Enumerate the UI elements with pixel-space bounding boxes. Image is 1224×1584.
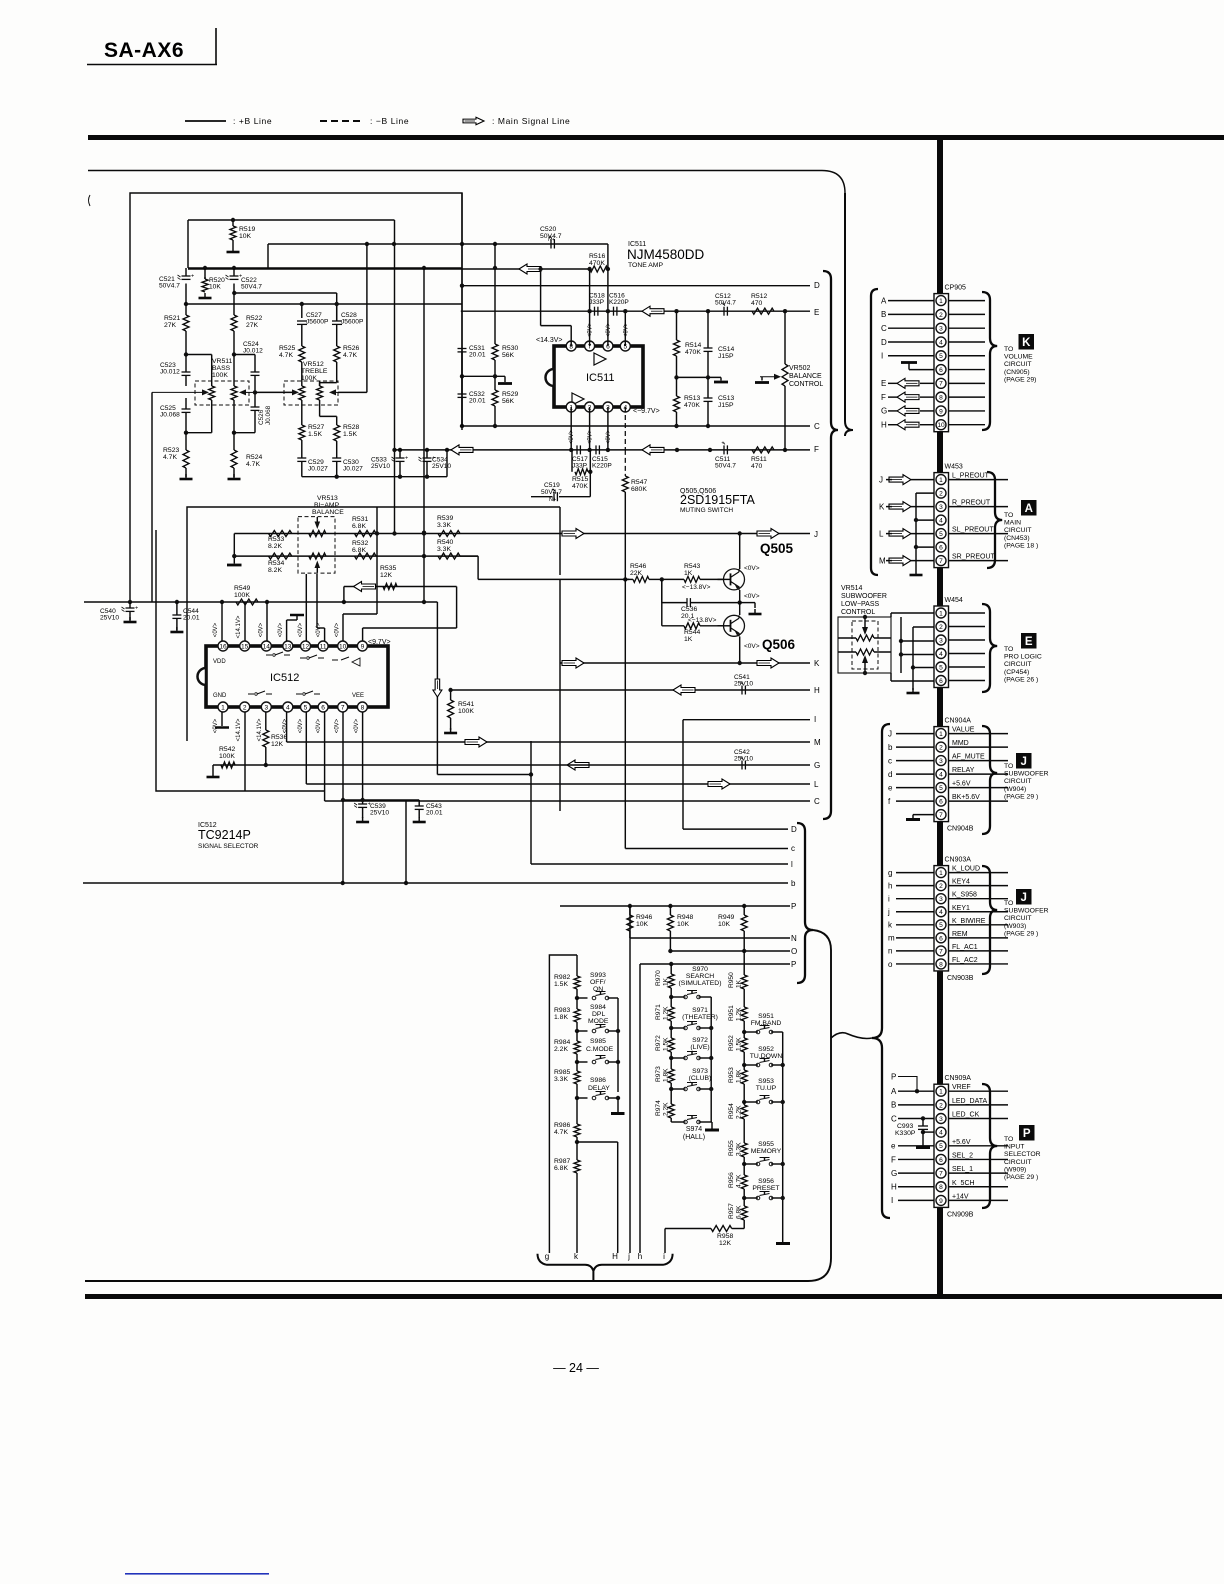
resistor R951 (741, 1007, 747, 1021)
svg-text:VOLUME: VOLUME (1004, 354, 1033, 361)
svg-text:(SIMULATED): (SIMULATED) (679, 980, 722, 987)
wire rail y268 (188, 268, 590, 270)
wire IC512 bottom pins (221, 712, 223, 726)
svg-text:PRESET: PRESET (752, 1185, 779, 1192)
svg-text:4.7K: 4.7K (343, 352, 357, 359)
resistor R974 (670, 1089, 672, 1104)
resistor R952 (743, 1032, 745, 1038)
signal arrow L (708, 779, 730, 789)
svg-text:W453: W453 (945, 464, 963, 471)
resistor R522 (233, 293, 235, 315)
switch S952 (744, 1064, 758, 1066)
frame thick bottom line (85, 1294, 1222, 1299)
svg-text:O: O (791, 947, 797, 956)
ground W453 (915, 570, 917, 575)
svg-text:<0V>: <0V> (623, 322, 629, 337)
wire to pin (898, 1158, 934, 1160)
svg-text:100K: 100K (234, 592, 250, 599)
resistor R533 (269, 531, 292, 537)
svg-text:12: 12 (302, 643, 310, 650)
resistor R524 (233, 433, 235, 450)
svg-text:LED_CK: LED_CK (952, 1112, 980, 1119)
VR514 arrow up (862, 655, 868, 663)
svg-text:b: b (888, 743, 893, 752)
wire pin stubs W454 (949, 612, 986, 614)
svg-text:(THEATER): (THEATER) (682, 1014, 718, 1021)
wire C519 row (531, 496, 553, 498)
svg-text:<0V>: <0V> (744, 643, 760, 650)
svg-text:TO: TO (1004, 346, 1013, 353)
ground C544 (176, 627, 178, 632)
wire to pin (896, 760, 934, 762)
svg-text:5: 5 (939, 785, 943, 792)
pin 12 (301, 641, 311, 651)
capacitor C527 body (297, 320, 307, 322)
pin 5 (620, 341, 630, 351)
svg-text:(W909): (W909) (1004, 1166, 1026, 1173)
wire pin11 feed (324, 628, 326, 641)
capacitor C543 (418, 800, 420, 806)
svg-text:1.8K: 1.8K (736, 1069, 743, 1083)
svg-text:D: D (791, 825, 797, 834)
wire F line (395, 449, 811, 451)
svg-text:R974: R974 (655, 1100, 662, 1116)
VR513 wiper down arrow (315, 522, 321, 530)
resistor R523 (185, 433, 187, 450)
wire P hop (898, 1077, 917, 1092)
svg-text:OFF/: OFF/ (590, 979, 606, 986)
resistor R530 (494, 244, 496, 268)
pin 5 (301, 702, 311, 712)
svg-text:<0V>: <0V> (606, 429, 612, 444)
svg-text:IC511: IC511 (586, 372, 615, 384)
svg-text:BALANCE: BALANCE (312, 509, 344, 516)
svg-text:<0V>: <0V> (569, 429, 575, 444)
VR514 wires (838, 637, 856, 639)
wire net label underline (949, 1090, 1009, 1092)
VR512 wiper right arrow (333, 391, 338, 393)
switch S953 (744, 1101, 758, 1103)
svg-text:4: 4 (939, 518, 943, 525)
resistor R543 (684, 576, 700, 582)
wire to pin (920, 410, 934, 412)
pin 2 (936, 1100, 946, 1110)
svg-text:R957: R957 (728, 1203, 735, 1219)
svg-text:50V4.7: 50V4.7 (541, 489, 562, 496)
wire pin8 supply (570, 326, 572, 346)
VR511 dashed box (195, 381, 249, 405)
svg-text:2: 2 (939, 745, 943, 752)
svg-text:CIRCUIT: CIRCUIT (1004, 915, 1032, 922)
ground VR502 mid (720, 377, 722, 380)
svg-text:e: e (888, 783, 893, 792)
wire net label underline (949, 800, 1009, 802)
svg-text:N+: N+ (548, 237, 555, 243)
svg-text:470K: 470K (684, 402, 700, 409)
wire C519 to R515 (559, 496, 590, 498)
svg-text:P: P (891, 1072, 896, 1081)
svg-text:<0V>: <0V> (298, 622, 304, 637)
wire net label underline (949, 773, 1009, 775)
svg-text:<14.1V>: <14.1V> (236, 718, 242, 741)
node junction (660, 577, 664, 581)
VR512 pot right (319, 383, 321, 386)
ground Q505 emitter (740, 602, 755, 604)
signal arrow E line (642, 306, 664, 316)
svg-text:100K: 100K (219, 753, 235, 760)
node junction (674, 424, 678, 428)
svg-text:2: 2 (939, 624, 943, 631)
ground pin13 (290, 614, 304, 617)
capacitor C519 (553, 492, 555, 501)
svg-text:(CN905): (CN905) (1004, 369, 1030, 376)
resistor R946 (629, 906, 631, 915)
pin 8 (936, 959, 946, 969)
svg-text:6: 6 (939, 935, 943, 942)
wire S985 right (608, 1061, 619, 1063)
wire P key rail (560, 905, 790, 907)
resistor R954 (743, 1102, 745, 1105)
svg-text:m: m (888, 934, 895, 943)
ground VR502 wiper (755, 381, 769, 384)
resistor R955 (741, 1143, 747, 1157)
svg-text:1.5K: 1.5K (308, 431, 322, 438)
node junction (184, 431, 188, 435)
svg-text:K_BIWIRE: K_BIWIRE (952, 918, 986, 925)
resistor R525 (301, 324, 303, 346)
svg-text:1.5K: 1.5K (736, 1037, 743, 1051)
svg-text:9: 9 (939, 1198, 943, 1205)
wire C rail (460, 425, 810, 427)
svg-text:CN904B: CN904B (947, 826, 974, 833)
IC512 area box (187, 507, 560, 741)
signal arrow to IC511 (519, 264, 541, 274)
wire to pin (896, 733, 934, 735)
svg-text:(HALL): (HALL) (683, 1134, 705, 1141)
svg-text:I: I (881, 352, 883, 361)
svg-text:CN903B: CN903B (947, 975, 974, 982)
svg-text:20.01: 20.01 (469, 352, 486, 359)
wire R519 rail (188, 219, 395, 221)
pin 6 (936, 365, 946, 375)
svg-text:1.5K: 1.5K (554, 981, 568, 988)
svg-text:3.3K: 3.3K (554, 1076, 568, 1083)
VR511 wiper right arrow (243, 391, 255, 393)
wire S971 right (699, 1027, 712, 1029)
pin 1 (218, 702, 228, 712)
svg-text:KEY1: KEY1 (952, 905, 970, 912)
svg-text:J: J (814, 530, 818, 539)
svg-text:2SD1915FTA: 2SD1915FTA (680, 493, 755, 507)
switch S955 (744, 1163, 758, 1165)
svg-text:C993: C993 (897, 1123, 913, 1130)
brace bundle D-P lower (797, 823, 813, 983)
capacitor C530 (332, 457, 341, 459)
wire S955 right (771, 1163, 783, 1165)
wire pin7 down to b rail (342, 712, 344, 883)
svg-text:5: 5 (939, 922, 943, 929)
svg-text:RELAY: RELAY (952, 767, 975, 774)
wire rail to Q505 base (478, 578, 629, 580)
wire rail y774 (437, 774, 531, 776)
svg-text:CONTROL: CONTROL (841, 609, 875, 616)
pin 9 (936, 1195, 946, 1205)
resistor R511 (752, 447, 774, 453)
capacitor C532 (461, 352, 463, 394)
svg-text:FL_AC1: FL_AC1 (952, 944, 978, 951)
svg-text:H: H (881, 421, 887, 430)
wire L line from pin5 (305, 712, 307, 784)
svg-text:R972: R972 (655, 1035, 662, 1051)
svg-text:5: 5 (939, 531, 943, 538)
wire pin stubs top (589, 311, 591, 346)
svg-text:R_PREOUT: R_PREOUT (952, 500, 991, 507)
wire to pin (896, 937, 934, 939)
svg-text:E: E (1025, 636, 1033, 648)
wire net label underline (949, 885, 1009, 887)
switch S972 (671, 1057, 685, 1059)
svg-text:i: i (888, 895, 890, 904)
pin 3 (936, 756, 946, 766)
wire E line (461, 310, 810, 312)
wire to pin (896, 746, 934, 748)
resistor R949 (743, 906, 745, 915)
wire C line from pin6 (324, 712, 326, 801)
svg-text:100K: 100K (301, 375, 317, 382)
svg-text:3: 3 (264, 704, 268, 711)
svg-text:c: c (791, 844, 795, 853)
wire C993 to pin4 (923, 1131, 934, 1133)
wire collector from brace to bottom rail (85, 930, 831, 1281)
svg-text:680K: 680K (631, 486, 647, 493)
svg-text:VEE: VEE (352, 693, 364, 699)
destination box J (1016, 753, 1032, 769)
resistor R516 (590, 266, 608, 272)
title box (87, 64, 217, 66)
svg-text:20.01: 20.01 (426, 810, 443, 817)
signal arrow down mid (433, 679, 442, 697)
svg-text:470K: 470K (685, 349, 701, 356)
op-amp U511 body (554, 346, 643, 407)
signal arrow G (567, 760, 589, 770)
svg-text:VALUE: VALUE (952, 727, 975, 734)
svg-text:LOW−PASS: LOW−PASS (841, 601, 880, 608)
legend +B Line sample (185, 120, 226, 122)
svg-text:N: N (791, 934, 797, 943)
wire C line lower (325, 800, 810, 802)
wire net label underline (949, 937, 1009, 939)
svg-text:4: 4 (939, 909, 943, 916)
giant brace upper segment (845, 193, 853, 436)
svg-text:C.MODE: C.MODE (586, 1046, 614, 1053)
svg-text:FL_AC2: FL_AC2 (952, 957, 978, 964)
svg-text:50V4.7: 50V4.7 (241, 284, 262, 291)
svg-text:I: I (814, 715, 816, 724)
pin 4 (936, 337, 946, 347)
wire net label underline (949, 924, 1009, 926)
svg-text:<0V>: <0V> (354, 718, 360, 733)
wire pin stub right (949, 313, 986, 315)
wire to pin (896, 911, 934, 913)
wire to pin (896, 787, 934, 789)
capacitor C540 (129, 602, 131, 608)
frame thick top line (88, 135, 1224, 140)
svg-text:G: G (814, 761, 820, 770)
signal arrow J right (757, 529, 779, 539)
capacitor C513 (707, 377, 709, 398)
IC512 internal switch d (248, 691, 272, 694)
destination box J (1016, 889, 1032, 905)
svg-text:INPUT: INPUT (1004, 1144, 1024, 1151)
svg-text:2.2K: 2.2K (554, 1046, 568, 1053)
svg-text:A: A (881, 296, 887, 305)
svg-text:K_S958: K_S958 (952, 892, 977, 899)
svg-text:<14.1V>: <14.1V> (236, 615, 242, 638)
resistor R514 (676, 311, 678, 340)
connector W453 body (934, 473, 949, 568)
svg-text:(CLUB): (CLUB) (689, 1075, 712, 1082)
svg-text:I: I (891, 1196, 893, 1205)
svg-text:(PAGE 29 ): (PAGE 29 ) (1004, 1174, 1038, 1181)
brace CP905 right (982, 292, 997, 430)
svg-text:E: E (881, 379, 886, 388)
wire to pin (888, 327, 934, 329)
wire rail y304 (186, 303, 462, 305)
node junction (392, 531, 396, 535)
svg-text:A: A (891, 1087, 897, 1096)
resistor R948 (669, 906, 671, 915)
svg-text:J0.012: J0.012 (243, 348, 263, 355)
svg-text:E: E (814, 308, 819, 317)
capacitor C514 (707, 311, 709, 348)
svg-text:B: B (881, 310, 886, 319)
svg-text:DELAY: DELAY (588, 1085, 610, 1092)
svg-text:o: o (888, 960, 893, 969)
svg-text:G: G (881, 407, 887, 416)
svg-text:d: d (888, 770, 892, 779)
signal arrow J (889, 475, 911, 485)
svg-text:470K: 470K (572, 483, 588, 490)
svg-text:: Main Signal Line: : Main Signal Line (492, 116, 570, 126)
resistor R521 (185, 304, 187, 315)
svg-text:VREF: VREF (952, 1084, 971, 1091)
wire to pin (888, 341, 934, 343)
svg-text:12K: 12K (271, 741, 284, 748)
switch S985 (577, 1061, 588, 1063)
wire c line (625, 848, 788, 850)
svg-text:1.2K: 1.2K (736, 1007, 743, 1021)
svg-text:DPL: DPL (592, 1011, 605, 1018)
svg-text:7: 7 (939, 381, 943, 388)
svg-text:1K: 1K (663, 977, 670, 986)
wire b rail (83, 882, 788, 884)
wire W454 pin1 (891, 612, 934, 614)
svg-text:2: 2 (243, 704, 247, 711)
svg-text:J15P: J15P (718, 402, 734, 409)
svg-text:H: H (814, 686, 820, 695)
destination box K (1019, 334, 1035, 350)
svg-text:LED_DATA: LED_DATA (952, 1098, 987, 1105)
resistor R529 (494, 376, 496, 390)
resistor R532 (355, 553, 377, 559)
svg-text:6: 6 (939, 799, 943, 806)
svg-text:<−9.7V>: <−9.7V> (633, 408, 660, 415)
capacitor C529 (297, 457, 306, 459)
wire to pin (898, 1104, 934, 1106)
resistor R512 (752, 308, 774, 314)
wire W454 gnd bus (912, 627, 914, 690)
IC512 internal switch b (300, 655, 324, 658)
svg-text:470K: 470K (589, 260, 605, 267)
svg-text:3: 3 (939, 504, 943, 511)
wire W453 ground bus (915, 493, 917, 570)
svg-text:J0.068: J0.068 (265, 405, 272, 425)
VR513 wiper up arrow (315, 561, 321, 569)
svg-text:TO: TO (1004, 646, 1013, 653)
capacitor C515 (595, 445, 597, 454)
svg-text:1K: 1K (736, 979, 743, 988)
svg-text:SEARCH: SEARCH (686, 973, 714, 980)
svg-text:TO: TO (1004, 512, 1013, 519)
wire l line (531, 863, 788, 865)
wire net label underline (949, 872, 1009, 874)
svg-text:: −B Line: : −B Line (370, 116, 409, 126)
wire under IC511 pins (570, 407, 572, 450)
VR514 pot top half (856, 635, 874, 641)
resistor R987 (576, 1142, 578, 1160)
svg-text:SR_PREOUT: SR_PREOUT (952, 554, 996, 561)
pin 4 (936, 515, 946, 525)
svg-text:1.5K: 1.5K (343, 431, 357, 438)
wire left key group box (549, 955, 577, 1253)
wire to pin (896, 872, 934, 874)
wire S972 right (699, 1057, 712, 1059)
wire tone network outer box (130, 193, 462, 602)
svg-text:12K: 12K (719, 1240, 732, 1247)
pin 2 (936, 309, 946, 319)
pin 10 (338, 641, 348, 651)
capacitor C534 (426, 450, 428, 458)
wire S970 right (699, 996, 712, 998)
svg-text:L: L (814, 780, 819, 789)
svg-text:4.7K: 4.7K (246, 461, 260, 468)
resistor R526 (336, 324, 338, 346)
svg-text:(PAGE 29 ): (PAGE 29 ) (1004, 793, 1038, 800)
svg-text:3.3K: 3.3K (437, 546, 451, 553)
wire j rail (629, 906, 631, 1253)
signal arrow J left (562, 529, 584, 539)
capacitor C522 (233, 268, 235, 276)
pin 8 (566, 341, 576, 351)
pin 6 (936, 933, 946, 943)
pin 8 (936, 392, 946, 402)
svg-text:4: 4 (939, 772, 943, 779)
wire W454 pin4 (901, 654, 934, 656)
svg-text:CIRCUIT: CIRCUIT (1004, 778, 1032, 785)
svg-text:15: 15 (241, 643, 249, 650)
svg-text:(CN453): (CN453) (1004, 535, 1030, 542)
svg-text:TU.UP: TU.UP (756, 1085, 777, 1092)
wire pin stub right (949, 424, 986, 426)
wire net label underline (949, 560, 1009, 562)
svg-text:VR511: VR511 (212, 358, 232, 365)
signal arrow F line (451, 445, 473, 455)
svg-text:27K: 27K (246, 322, 259, 329)
capacitor C539 (358, 803, 367, 805)
svg-text:S984: S984 (590, 1004, 606, 1011)
svg-text:TREBLE: TREBLE (301, 368, 328, 375)
wire to pin (896, 773, 934, 775)
